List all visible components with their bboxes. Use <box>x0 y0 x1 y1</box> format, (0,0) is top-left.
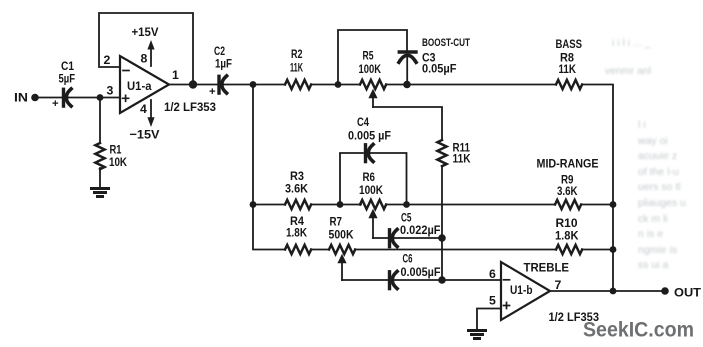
svg-text:2: 2 <box>104 53 111 67</box>
node R5 right junction <box>403 81 411 89</box>
svg-text:11K: 11K <box>290 61 303 75</box>
value label R1 10K <box>109 143 127 170</box>
wire R11 down bus <box>441 168 443 280</box>
resistor R1 <box>95 98 104 188</box>
resistor R2 <box>285 80 311 89</box>
resistor R3 <box>285 200 311 209</box>
wiper arrow R6 <box>368 209 377 238</box>
capacitor C5 <box>390 229 398 246</box>
node row2 right junction <box>610 201 617 208</box>
watermark SeekIC.com <box>583 318 694 342</box>
pin number 4 <box>140 102 147 116</box>
wire R6 wiper to C5 <box>373 237 388 239</box>
wire C1 to pin3 <box>67 97 120 99</box>
capacitor C1 <box>64 89 72 106</box>
value label R11 11K <box>453 141 471 166</box>
label U1-b <box>510 283 533 297</box>
wire C4 bracket <box>340 153 407 205</box>
wire pin 5 to ground <box>477 309 501 330</box>
svg-text:0.005µF: 0.005µF <box>401 265 441 279</box>
node output/right bus junction <box>610 288 617 295</box>
wire R2 to R5 <box>311 84 360 86</box>
pin number 6 <box>489 267 496 281</box>
svg-text:TREBLE: TREBLE <box>524 261 570 275</box>
value label R9 3.6K <box>557 173 578 199</box>
svg-text:1.8K: 1.8K <box>286 226 307 240</box>
svg-text:+15V: +15V <box>132 25 160 39</box>
svg-text:100K: 100K <box>359 62 382 76</box>
svg-text:C6: C6 <box>403 252 413 266</box>
svg-text:R2: R2 <box>291 47 303 61</box>
svg-text:10K: 10K <box>109 155 127 169</box>
wire IN lead <box>35 97 62 99</box>
svg-text:11K: 11K <box>559 62 577 76</box>
label MID-RANGE <box>537 157 599 171</box>
node row3 right junction <box>610 246 617 253</box>
wire row2 left <box>253 204 285 206</box>
wire top row to right bus <box>582 85 613 292</box>
node IN <box>31 94 39 102</box>
svg-text:C4: C4 <box>357 115 369 129</box>
svg-text:1/2 LF353: 1/2 LF353 <box>164 100 216 114</box>
svg-text:3.6K: 3.6K <box>285 182 308 196</box>
pin number 7 <box>555 278 562 292</box>
wire R10 to right bus <box>582 249 613 251</box>
potentiometer R6 <box>360 200 386 209</box>
op-amp U1-b <box>501 262 550 320</box>
wire row3 right <box>355 249 556 251</box>
wire row2 right <box>386 204 555 206</box>
value label R8 11K <box>559 51 577 77</box>
node R5 left junction <box>335 81 342 88</box>
pin number 5 <box>489 294 496 308</box>
node OUT <box>661 287 669 295</box>
svg-text:1.8K: 1.8K <box>555 229 579 243</box>
value label R10 1.8K <box>555 216 579 243</box>
resistor R8 <box>556 80 582 89</box>
value label R2 11K <box>290 47 303 75</box>
label -15V <box>130 128 161 142</box>
label BOOST-CUT <box>422 37 470 49</box>
value label C2 1uF <box>209 44 232 98</box>
svg-text:100K: 100K <box>359 183 383 197</box>
wire U1-b output to OUT <box>550 290 665 292</box>
svg-text:5µF: 5µF <box>59 72 76 86</box>
node row2 left junction <box>250 201 257 208</box>
wire C6 to pin 6 <box>393 279 501 281</box>
node R6 left junction <box>337 201 344 208</box>
svg-text:1µF: 1µF <box>215 57 232 71</box>
label OUT <box>674 286 701 300</box>
value label R4 1.8K <box>286 214 307 240</box>
resistor R10 <box>556 245 582 254</box>
wiper arrow R7 <box>337 254 346 280</box>
wire R5 to R8 <box>386 84 556 86</box>
node R6 right junction <box>403 201 410 208</box>
capacitor C3 <box>399 52 416 62</box>
node C5/bus junction <box>438 234 446 242</box>
wiper arrow R5 <box>368 89 377 107</box>
ground G1 <box>92 189 109 197</box>
wire C5 to bus <box>393 237 442 239</box>
value label C4 0.005uF <box>348 115 391 143</box>
node C1/R1 junction <box>97 94 104 101</box>
svg-text:BASS: BASS <box>556 37 583 51</box>
svg-text:0.022µF: 0.022µF <box>400 223 441 237</box>
wire C2 to R2 <box>223 84 285 86</box>
svg-text:4: 4 <box>140 102 147 116</box>
svg-text:3.6K: 3.6K <box>557 184 578 198</box>
wire R3 to R6 <box>311 204 361 206</box>
node top row junction A <box>250 81 257 88</box>
svg-text:1: 1 <box>172 68 179 82</box>
label 1/2 LF353 (U1-a) <box>164 100 216 114</box>
svg-text:0.05µF: 0.05µF <box>422 62 457 76</box>
value label C5 0.022uF <box>400 211 441 238</box>
label +15V <box>132 25 160 39</box>
svg-text:0.005 µF: 0.005 µF <box>348 129 391 143</box>
potentiometer R7 <box>329 245 355 254</box>
op-amp U1-a <box>120 56 169 113</box>
svg-text:R7: R7 <box>330 215 343 229</box>
pin number 1 <box>172 68 179 82</box>
svg-text:11K: 11K <box>453 152 471 166</box>
svg-text:500K: 500K <box>329 228 354 242</box>
value label C3 0.05uF <box>422 51 457 76</box>
label TREBLE <box>524 261 570 275</box>
value label C1 5uF <box>52 59 75 110</box>
value label R3 3.6K <box>285 169 308 196</box>
svg-text:R5: R5 <box>363 49 374 63</box>
svg-text:6: 6 <box>489 267 496 281</box>
label U1-a <box>127 79 152 93</box>
label BASS <box>556 37 583 51</box>
resistor R9 <box>555 200 581 209</box>
svg-text:+: + <box>209 86 216 98</box>
pin number 8 <box>141 52 148 66</box>
wire left vertical bus <box>253 85 285 250</box>
potentiometer R5 <box>360 80 386 89</box>
capacitor C4 <box>366 144 374 161</box>
wire R9 to right bus <box>581 204 613 206</box>
wire feedback loop U1-a <box>99 13 193 85</box>
svg-text:U1-b: U1-b <box>510 283 533 297</box>
svg-text:R6: R6 <box>363 170 376 184</box>
svg-text:U1-a: U1-a <box>127 79 152 93</box>
svg-text:3: 3 <box>107 84 114 98</box>
label 1/2 LF353 (U1-b) <box>549 310 600 324</box>
svg-text:OUT: OUT <box>674 286 701 300</box>
svg-text:7: 7 <box>555 278 562 292</box>
svg-text:IN: IN <box>14 91 28 105</box>
value label R6 100K <box>359 170 383 197</box>
wire R5/C3 feedback bracket <box>338 30 407 85</box>
wire R7 wiper to C6 <box>342 279 388 281</box>
value label R5 100K <box>359 49 382 77</box>
label IN <box>14 91 28 105</box>
wire U1-a output <box>169 84 218 86</box>
svg-text:−15V: −15V <box>130 128 161 142</box>
value label R7 500K <box>329 215 354 242</box>
capacitor C2 <box>219 76 227 93</box>
pin number 3 <box>107 84 114 98</box>
resistor R4 <box>285 245 311 254</box>
svg-text:8: 8 <box>141 52 148 66</box>
capacitor C6 <box>390 271 398 288</box>
value label C6 0.005uF <box>401 252 441 280</box>
svg-text:SeekIC.com: SeekIC.com <box>583 318 694 342</box>
resistor R11 <box>437 140 446 166</box>
pin number 2 <box>104 53 111 67</box>
power -15V arrow pin 4 <box>147 100 154 127</box>
svg-text:5: 5 <box>489 294 496 308</box>
wire R5 wiper to R11 <box>373 107 442 140</box>
power +15V arrow pin 8 <box>147 40 154 66</box>
ground G2 <box>469 331 486 339</box>
svg-text:+: + <box>52 98 59 110</box>
svg-text:MID-RANGE: MID-RANGE <box>537 157 599 171</box>
svg-text:BOOST-CUT: BOOST-CUT <box>422 37 470 49</box>
wire R4 to R7 <box>311 249 329 251</box>
node feedback/output junction <box>189 80 197 88</box>
node C6/bus junction <box>438 276 446 284</box>
